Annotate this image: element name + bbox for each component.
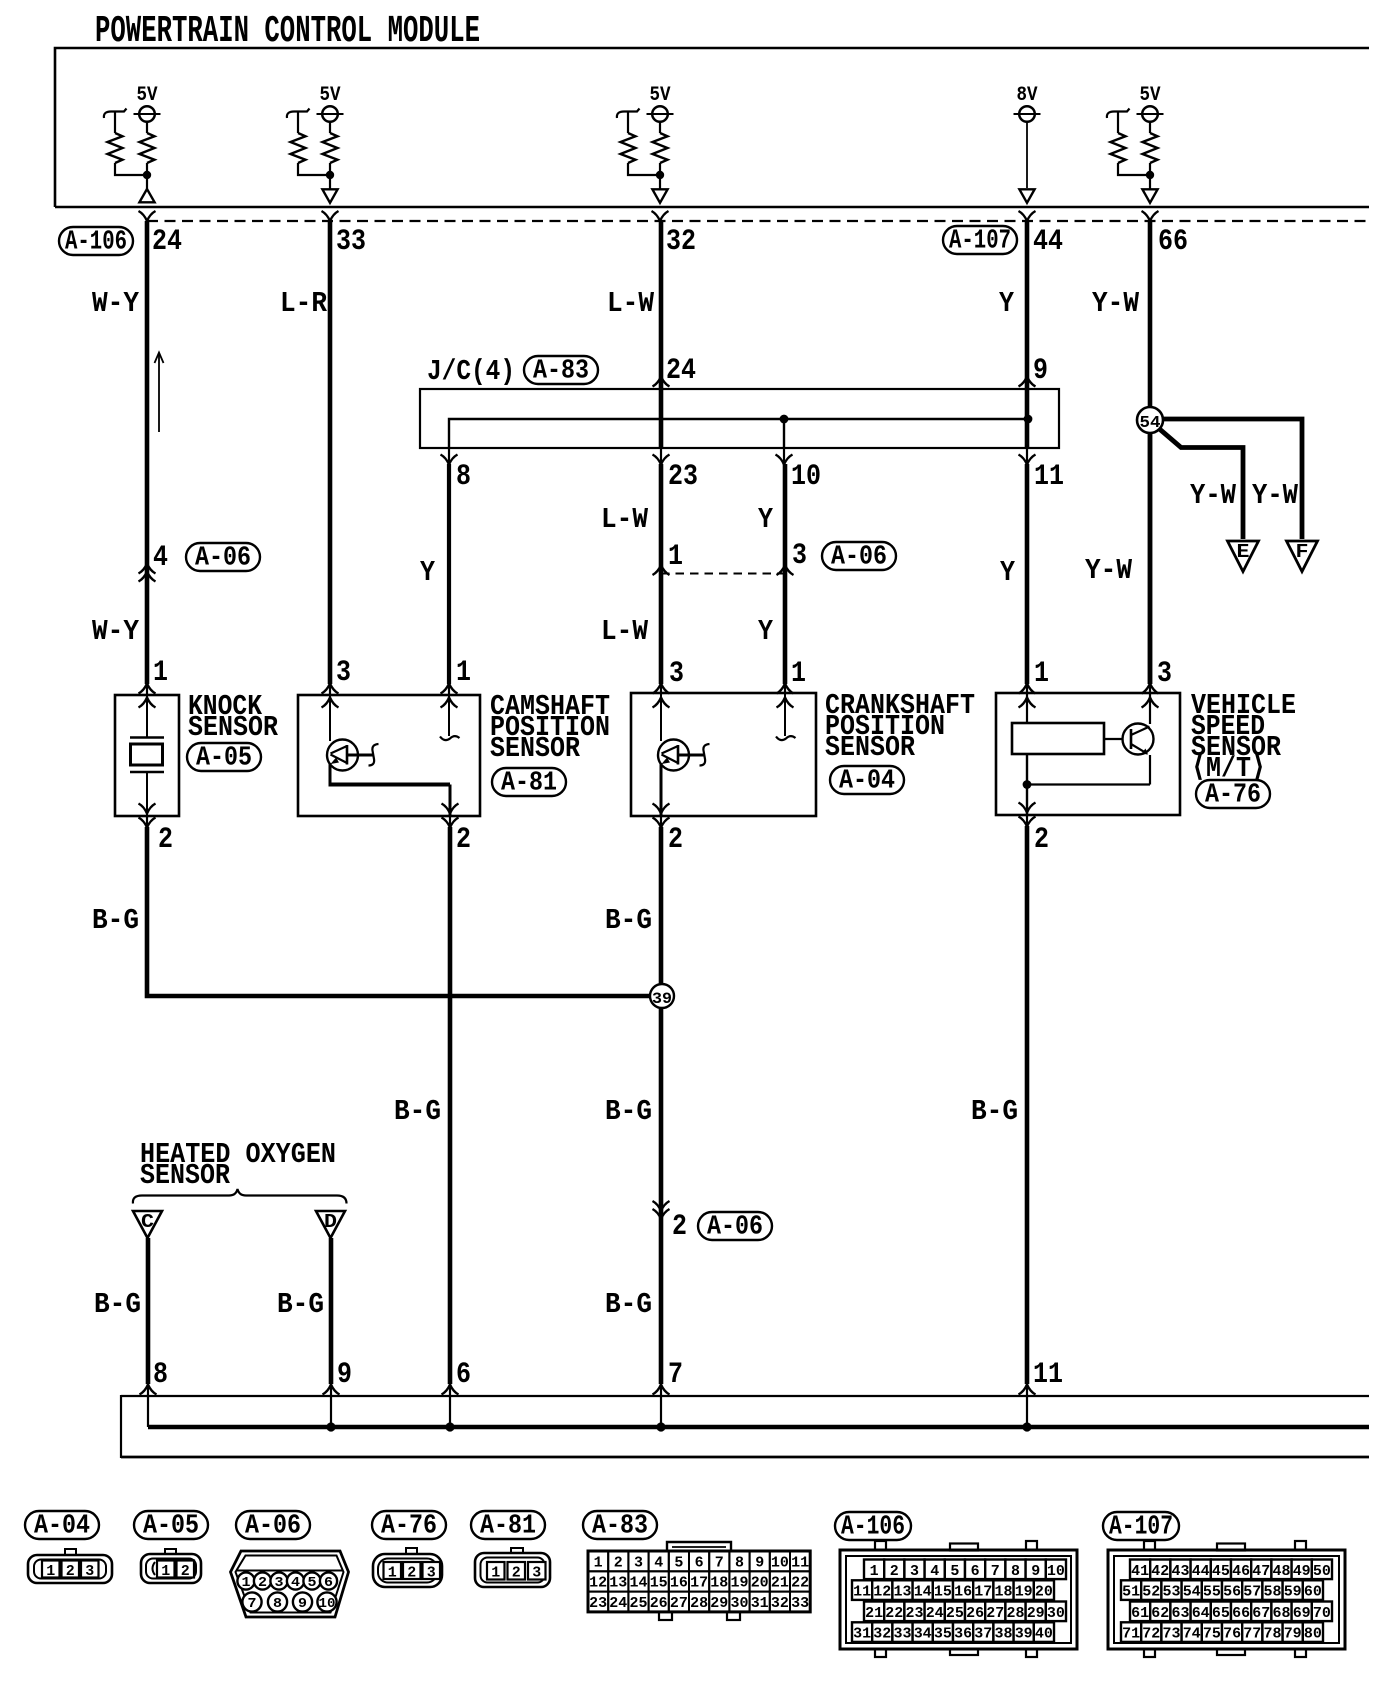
terminal forks cam pin 3 <box>329 683 331 695</box>
svg-text:43: 43 <box>1172 1563 1190 1580</box>
svg-text:75: 75 <box>1203 1626 1221 1643</box>
svg-text:11: 11 <box>1033 1358 1063 1392</box>
svg-text:2: 2 <box>668 823 683 857</box>
arrow into PCM (open triangle up) x=147 <box>139 189 154 202</box>
terminal fork J/C bottom pin 8 <box>448 448 450 464</box>
svg-text:Y: Y <box>1000 556 1016 589</box>
svg-text:59: 59 <box>1284 1584 1302 1601</box>
svg-text:D: D <box>324 1211 337 1233</box>
wire B-G from C to bus pin 8 <box>146 1238 151 1384</box>
svg-text:A-06: A-06 <box>831 542 887 572</box>
crank sensor pickup (hall) symbol <box>660 693 662 741</box>
connector terminal fork at PCM pin x=147 <box>139 211 156 221</box>
svg-text:22: 22 <box>791 1575 809 1592</box>
terminal forks crank pin 3 <box>660 683 662 693</box>
svg-text:26: 26 <box>650 1595 668 1612</box>
wire Y-W branch to F <box>1160 419 1302 539</box>
knock sensor piezo element <box>146 695 148 737</box>
svg-text:30: 30 <box>731 1595 749 1612</box>
svg-text:2: 2 <box>512 1565 521 1582</box>
svg-text:A-107: A-107 <box>949 226 1011 256</box>
svg-text:A-107: A-107 <box>1109 1512 1173 1542</box>
svg-text:54: 54 <box>1183 1584 1201 1601</box>
svg-text:34: 34 <box>914 1626 932 1643</box>
svg-text:33: 33 <box>336 225 366 259</box>
svg-text:1: 1 <box>153 656 168 690</box>
svg-text:17: 17 <box>690 1575 708 1592</box>
connector terminal fork at PCM pin x=660 <box>652 211 669 221</box>
bus junction dot pin 6 <box>445 1422 454 1431</box>
terminal forks cam pin 1 <box>448 683 450 695</box>
svg-text:11: 11 <box>1034 460 1064 494</box>
connector label A-04 (pinout) <box>25 1511 99 1539</box>
svg-text:79: 79 <box>1284 1626 1302 1643</box>
connector label A-83 <box>524 356 598 384</box>
svg-text:72: 72 <box>1142 1626 1160 1643</box>
svg-text:16: 16 <box>670 1575 688 1592</box>
svg-text:8: 8 <box>273 1596 282 1612</box>
connector terminal fork at PCM pin x=1027 <box>1019 211 1036 221</box>
svg-text:3: 3 <box>634 1554 643 1571</box>
VSS internal junction dot <box>1023 780 1032 789</box>
svg-text:66: 66 <box>1232 1605 1250 1622</box>
harness band left edge <box>120 1395 122 1458</box>
svg-text:45: 45 <box>1212 1563 1230 1580</box>
svg-text:5V: 5V <box>650 84 671 107</box>
arrow out of PCM (open triangle down) x=330 <box>322 189 337 203</box>
svg-text:69: 69 <box>1293 1605 1311 1622</box>
svg-text:6: 6 <box>971 1563 980 1580</box>
connector terminal fork at PCM pin x=330 <box>322 211 339 221</box>
svg-text:14: 14 <box>914 1584 932 1601</box>
svg-text:32: 32 <box>666 225 696 259</box>
svg-text:23: 23 <box>668 460 698 494</box>
svg-text:29: 29 <box>710 1595 728 1612</box>
svg-text:3: 3 <box>532 1565 541 1582</box>
junction box J/C(4) A-83 <box>420 389 1059 448</box>
svg-text:24: 24 <box>666 354 696 388</box>
svg-text:3: 3 <box>427 1565 436 1582</box>
connector boundary dashed line (PCM harness side) <box>147 220 1369 222</box>
knock sensor box A-05 <box>115 695 179 816</box>
supply circle 5V x=147 <box>139 106 155 122</box>
svg-text:60: 60 <box>1304 1584 1322 1601</box>
svg-text:A-76: A-76 <box>1205 780 1261 810</box>
svg-text:24: 24 <box>609 1595 627 1612</box>
junction dot x=1150 y=175 <box>1146 171 1154 179</box>
crankshaft position sensor box A-04 <box>631 693 816 816</box>
svg-text:9: 9 <box>1033 354 1048 388</box>
svg-text:POWERTRAIN CONTROL MODULE: POWERTRAIN CONTROL MODULE <box>95 10 480 53</box>
svg-text:SENSOR: SENSOR <box>490 732 581 765</box>
svg-text:33: 33 <box>791 1595 809 1612</box>
svg-text:3: 3 <box>1157 657 1172 691</box>
in-line connector chevrons A-06 pin 2 on B-G wire <box>653 1201 670 1211</box>
supply circle 5V x=1150 <box>1142 106 1158 122</box>
svg-text:A-06: A-06 <box>245 1511 301 1541</box>
VSS output transistor <box>1149 693 1151 724</box>
svg-text:64: 64 <box>1192 1605 1210 1622</box>
resistor R left (pull) x=660 <box>617 109 640 119</box>
J/C internal bus wire <box>449 419 1028 448</box>
svg-text:L-W: L-W <box>601 503 649 536</box>
svg-text:B-G: B-G <box>605 904 652 937</box>
svg-text:10: 10 <box>319 1596 336 1612</box>
svg-text:1: 1 <box>870 1563 879 1580</box>
svg-text:73: 73 <box>1163 1626 1181 1643</box>
svg-text:23: 23 <box>906 1605 924 1622</box>
svg-text:1: 1 <box>242 1575 251 1591</box>
svg-text:7: 7 <box>991 1563 1000 1580</box>
svg-text:SENSOR: SENSOR <box>140 1159 231 1192</box>
svg-text:25: 25 <box>630 1595 648 1612</box>
wire pin44 Y upper (PCM to J/C) <box>1025 221 1030 448</box>
svg-text:SENSOR: SENSOR <box>825 731 916 764</box>
svg-text:4: 4 <box>291 1575 300 1591</box>
svg-text:61: 61 <box>1131 1605 1149 1622</box>
svg-text:Y-W: Y-W <box>1085 554 1133 587</box>
svg-text:12: 12 <box>589 1575 607 1592</box>
svg-text:2: 2 <box>158 823 173 857</box>
in-line connector dashed tie (A-06) <box>661 573 785 575</box>
svg-text:8: 8 <box>456 460 471 494</box>
svg-text:63: 63 <box>1172 1605 1190 1622</box>
svg-text:B-G: B-G <box>605 1288 652 1321</box>
svg-text:1: 1 <box>668 540 683 574</box>
svg-text:5: 5 <box>308 1575 317 1591</box>
svg-text:A-05: A-05 <box>143 1511 199 1541</box>
svg-text:6: 6 <box>456 1358 471 1392</box>
svg-text:2: 2 <box>66 1563 75 1580</box>
svg-text:31: 31 <box>751 1595 769 1612</box>
splice node 39 <box>650 984 674 1008</box>
heated oxygen sensor brace <box>133 1189 347 1204</box>
svg-text:5: 5 <box>674 1554 683 1571</box>
svg-text:3: 3 <box>910 1563 919 1580</box>
svg-text:1: 1 <box>388 1565 397 1582</box>
terminal fork J/C top pin 24 <box>653 377 670 387</box>
svg-text:2: 2 <box>181 1563 190 1580</box>
svg-text:6: 6 <box>324 1575 333 1591</box>
svg-text:5V: 5V <box>320 84 341 107</box>
harness band upper line <box>121 1395 1369 1397</box>
svg-text:78: 78 <box>1264 1626 1282 1643</box>
svg-text:1: 1 <box>456 656 471 690</box>
svg-text:29: 29 <box>1027 1605 1045 1622</box>
svg-text:24: 24 <box>926 1605 944 1622</box>
camshaft position sensor box A-81 <box>298 695 480 816</box>
svg-text:56: 56 <box>1223 1584 1241 1601</box>
wire pin66 Y-W (PCM to vehicle speed sensor pin3) <box>1148 221 1153 684</box>
svg-text:7: 7 <box>668 1358 683 1392</box>
svg-text:51: 51 <box>1122 1584 1140 1601</box>
svg-text:A-04: A-04 <box>839 766 895 796</box>
connector A-106 pinout drawing <box>840 1550 1077 1649</box>
svg-text:W-Y: W-Y <box>92 287 140 320</box>
svg-text:1: 1 <box>1034 657 1049 691</box>
junction dot x=660 y=175 <box>656 171 664 179</box>
svg-text:A-106: A-106 <box>65 227 127 257</box>
svg-text:Y: Y <box>420 556 436 589</box>
connector A-04 pinout drawing <box>65 1549 76 1556</box>
connector label A-06 (crank wires) <box>822 542 896 570</box>
svg-text:23: 23 <box>589 1595 607 1612</box>
svg-text:Y-W: Y-W <box>1252 479 1299 512</box>
svg-text:A-83: A-83 <box>592 1511 648 1541</box>
svg-text:28: 28 <box>690 1595 708 1612</box>
vehicle speed sensor box A-76 <box>996 693 1180 815</box>
connector label A-107 <box>943 226 1017 254</box>
svg-text:32: 32 <box>873 1626 891 1643</box>
svg-text:48: 48 <box>1273 1563 1291 1580</box>
svg-text:L-R: L-R <box>280 287 328 320</box>
svg-text:21: 21 <box>771 1575 789 1592</box>
J/C bus junction dot 1 <box>780 415 789 424</box>
crank sensor pin1 stub with hook <box>784 693 786 736</box>
svg-text:7: 7 <box>248 1596 257 1612</box>
svg-text:7: 7 <box>715 1554 724 1571</box>
connector label A-81 (cam) <box>492 768 566 796</box>
off-page connector E <box>1228 541 1259 572</box>
svg-text:11: 11 <box>791 1554 809 1571</box>
supply circle 5V x=660 <box>652 106 668 122</box>
svg-text:52: 52 <box>1142 1584 1160 1601</box>
wire Y-W branch to E <box>1156 426 1243 539</box>
off-page connector C (heated oxygen sensor) <box>133 1211 162 1238</box>
svg-text:70: 70 <box>1313 1605 1331 1622</box>
connector label A-06 (wire 24) <box>186 543 260 571</box>
svg-text:9: 9 <box>755 1554 764 1571</box>
svg-text:5V: 5V <box>1140 84 1161 107</box>
PCM box (powertrain control module outline) <box>55 48 1369 207</box>
resistor R left (pull) x=330 <box>287 109 310 119</box>
terminal fork bus pin 6 <box>442 1385 459 1395</box>
connector A-81 pinout drawing <box>511 1548 523 1555</box>
terminal fork J/C top pin 9 <box>1019 377 1036 387</box>
arrow out of PCM (open triangle down) x=660 <box>652 189 667 203</box>
connector label A-05 (knock) <box>187 743 261 771</box>
svg-text:6: 6 <box>695 1554 704 1571</box>
svg-text:4: 4 <box>153 541 168 575</box>
svg-text:37: 37 <box>974 1626 992 1643</box>
terminal fork bus pin 11 <box>1019 1385 1036 1395</box>
svg-text:B-G: B-G <box>605 1095 652 1128</box>
svg-text:B-G: B-G <box>394 1095 441 1128</box>
svg-text:4: 4 <box>930 1563 939 1580</box>
svg-text:B-G: B-G <box>277 1288 324 1321</box>
svg-text:2: 2 <box>672 1210 687 1244</box>
svg-text:3: 3 <box>275 1575 284 1591</box>
svg-text:9: 9 <box>1031 1563 1040 1580</box>
svg-text:77: 77 <box>1243 1626 1261 1643</box>
svg-text:E: E <box>1237 541 1250 563</box>
svg-text:2: 2 <box>258 1575 267 1591</box>
svg-text:44: 44 <box>1033 225 1063 259</box>
off-page connector F <box>1287 541 1318 572</box>
svg-text:46: 46 <box>1232 1563 1250 1580</box>
terminal fork bus pin 7 <box>653 1385 670 1395</box>
svg-text:8: 8 <box>735 1554 744 1571</box>
svg-text:54: 54 <box>1140 414 1161 433</box>
svg-text:74: 74 <box>1183 1626 1201 1643</box>
svg-text:57: 57 <box>1243 1584 1261 1601</box>
terminal fork bus pin 8 <box>140 1385 157 1395</box>
svg-text:42: 42 <box>1151 1563 1169 1580</box>
svg-text:14: 14 <box>630 1575 648 1592</box>
svg-text:9: 9 <box>298 1596 307 1612</box>
svg-text:3: 3 <box>669 657 684 691</box>
svg-text:2: 2 <box>407 1565 416 1582</box>
svg-text:J/C(4): J/C(4) <box>427 355 515 388</box>
connector A-05 pinout drawing <box>165 1549 176 1556</box>
resistor R left (pull) x=1150 <box>1107 109 1130 119</box>
svg-text:A-106: A-106 <box>841 1512 905 1542</box>
svg-text:10: 10 <box>791 460 821 494</box>
svg-text:10: 10 <box>771 1554 789 1571</box>
in-line connector fork on L-W wire <box>653 565 670 575</box>
svg-text:55: 55 <box>1203 1584 1221 1601</box>
svg-text:66: 66 <box>1158 225 1188 259</box>
svg-text:2: 2 <box>456 823 471 857</box>
svg-text:10: 10 <box>1047 1563 1065 1580</box>
VSS internal output wire <box>1026 754 1028 815</box>
wire Y-W (node54 to VSS pin3) <box>1148 433 1153 684</box>
svg-text:8: 8 <box>153 1358 168 1392</box>
svg-text:L-W: L-W <box>601 615 649 648</box>
signal direction arrow (up) on W-Y wire <box>158 353 160 432</box>
svg-text:20: 20 <box>751 1575 769 1592</box>
svg-text:L-W: L-W <box>607 287 655 320</box>
svg-text:3: 3 <box>792 539 807 573</box>
svg-text:A-81: A-81 <box>501 768 557 798</box>
wire Y (J/C pin8 to camshaft pin1) <box>447 464 451 684</box>
svg-text:A-81: A-81 <box>480 1511 536 1541</box>
svg-text:22: 22 <box>885 1605 903 1622</box>
terminal fork J/C bottom pin 11 <box>1026 448 1028 464</box>
svg-text:2: 2 <box>614 1554 623 1571</box>
cam sensor pickup (hall) symbol <box>329 695 331 741</box>
svg-text:1: 1 <box>594 1554 603 1571</box>
svg-text:B-G: B-G <box>92 904 139 937</box>
junction dot x=147 y=175 <box>143 171 151 179</box>
svg-text:9: 9 <box>337 1358 352 1392</box>
in-line connector chevrons A-06 pin 4 on W-Y wire <box>139 564 156 574</box>
svg-text:21: 21 <box>865 1605 883 1622</box>
svg-text:12: 12 <box>873 1584 891 1601</box>
junction dot x=330 y=175 <box>326 171 334 179</box>
svg-text:A-06: A-06 <box>195 543 251 573</box>
cam sensor pin1 stub with hook <box>448 695 450 736</box>
svg-text:18: 18 <box>710 1575 728 1592</box>
connector A-76 pinout drawing <box>406 1548 417 1555</box>
connector label A-04 (crank) <box>830 766 904 794</box>
svg-text:B-G: B-G <box>94 1288 141 1321</box>
off-page connector D (heated oxygen sensor) <box>316 1211 345 1238</box>
svg-text:2: 2 <box>890 1563 899 1580</box>
connector terminal fork at PCM pin x=1150 <box>1142 211 1159 221</box>
J/C bus junction dot 2 <box>1024 415 1033 424</box>
svg-text:53: 53 <box>1163 1584 1181 1601</box>
svg-text:25: 25 <box>946 1605 964 1622</box>
connector label A-107 (pinout) <box>1103 1512 1179 1540</box>
terminal fork bus pin 9 <box>323 1385 340 1395</box>
svg-text:62: 62 <box>1151 1605 1169 1622</box>
terminal forks crank pin 2 <box>660 816 662 828</box>
svg-text:31: 31 <box>853 1626 871 1643</box>
svg-text:13: 13 <box>894 1584 912 1601</box>
cam sensor internal output wire <box>329 763 332 785</box>
svg-text:15: 15 <box>650 1575 668 1592</box>
svg-text:B-G: B-G <box>971 1095 1018 1128</box>
svg-text:1: 1 <box>491 1565 500 1582</box>
resistor R right (pull) x=660 <box>659 122 661 134</box>
wire B-G from D to bus pin 9 <box>329 1238 334 1384</box>
connector A-107 pinout drawing <box>1108 1550 1345 1649</box>
wire B-G cam pin2 to bus <box>448 827 453 1384</box>
connector label A-106 <box>59 227 133 255</box>
svg-text:80: 80 <box>1304 1626 1322 1643</box>
connector label A-83 (pinout) <box>583 1511 657 1539</box>
svg-text:65: 65 <box>1212 1605 1230 1622</box>
svg-text:8V: 8V <box>1017 84 1038 107</box>
svg-text:11: 11 <box>853 1584 871 1601</box>
wire B-G crank pin2 through splice 39 to bus <box>659 827 664 1384</box>
svg-text:76: 76 <box>1223 1626 1241 1643</box>
wire pin32 L-W upper (PCM to J/C) <box>659 221 664 448</box>
svg-text:Y: Y <box>758 503 774 536</box>
svg-text:35: 35 <box>934 1626 952 1643</box>
svg-text:15: 15 <box>934 1584 952 1601</box>
svg-text:32: 32 <box>771 1595 789 1612</box>
svg-text:30: 30 <box>1047 1605 1065 1622</box>
svg-text:50: 50 <box>1313 1563 1331 1580</box>
connector label A-05 (pinout) <box>134 1511 208 1539</box>
harness band lower line <box>121 1456 1369 1459</box>
svg-text:71: 71 <box>1122 1626 1140 1643</box>
resistor R right (pull) x=1150 <box>1149 122 1151 134</box>
svg-text:38: 38 <box>995 1626 1013 1643</box>
resistor R right (pull) x=330 <box>329 122 331 134</box>
svg-text:A-04: A-04 <box>34 1511 90 1541</box>
svg-text:Y: Y <box>999 287 1015 320</box>
terminal forks VSS pin 2 <box>1026 815 1028 827</box>
svg-text:47: 47 <box>1252 1563 1270 1580</box>
wire B-G VSS pin2 to bus <box>1025 826 1030 1384</box>
svg-text:36: 36 <box>954 1626 972 1643</box>
connector label A-81 (pinout) <box>471 1511 545 1539</box>
bus junction dot pin 11 <box>1022 1422 1031 1431</box>
terminal forks knock pin 1 <box>146 683 148 695</box>
svg-text:17: 17 <box>974 1584 992 1601</box>
svg-text:5V: 5V <box>137 84 158 107</box>
svg-text:33: 33 <box>894 1626 912 1643</box>
svg-text:49: 49 <box>1293 1563 1311 1580</box>
svg-text:26: 26 <box>966 1605 984 1622</box>
connector A-83 pinout drawing <box>667 1542 731 1551</box>
connector label A-76 (VSS) <box>1196 780 1270 808</box>
svg-text:Y-W: Y-W <box>1092 287 1140 320</box>
svg-text:24: 24 <box>152 225 182 259</box>
svg-text:58: 58 <box>1264 1584 1282 1601</box>
supply circle 5V x=330 <box>322 106 338 122</box>
svg-text:5: 5 <box>950 1563 959 1580</box>
terminal forks VSS pin 1 <box>1026 683 1028 693</box>
svg-text:20: 20 <box>1035 1584 1053 1601</box>
bus junction dot pin 9 <box>326 1422 335 1431</box>
svg-text:Y: Y <box>758 615 774 648</box>
svg-text:W-Y: W-Y <box>92 615 140 648</box>
svg-text:1: 1 <box>46 1563 55 1580</box>
